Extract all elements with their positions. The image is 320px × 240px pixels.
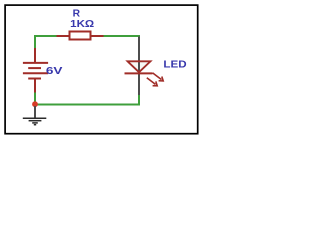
junction node dot xyxy=(32,101,38,107)
wire: green bottom run (LED bottom to junction) xyxy=(35,92,139,105)
resistor R1 left lead xyxy=(57,35,69,37)
border frame xyxy=(5,5,198,134)
LED D1 triangle outline xyxy=(128,61,151,72)
battery B1 bottom lead xyxy=(34,79,36,93)
wire: gray vertical (corner down through LED) xyxy=(138,37,140,96)
battery B1 top lead xyxy=(34,48,36,63)
battery plate short 1 xyxy=(28,67,41,69)
battery plate short 2 xyxy=(28,78,41,80)
battery plate long 2 xyxy=(23,72,48,74)
resistor R1 body xyxy=(70,32,91,40)
wire: green top-right segment (resistor to LED corner) xyxy=(104,35,141,37)
svg-text:1KΩ: 1KΩ xyxy=(70,19,94,30)
LED light arrow 2 xyxy=(147,78,157,86)
svg-text:LED: LED xyxy=(163,60,186,71)
resistor R1 right lead xyxy=(92,35,104,37)
LED light arrow 1 xyxy=(153,73,164,81)
ground symbol xyxy=(23,118,47,124)
svg-text:6V: 6V xyxy=(46,66,63,77)
ground stem wire xyxy=(34,106,36,118)
wire: green top-left corner (battery top to resistor) xyxy=(35,36,58,49)
LED D1 triangle fill xyxy=(128,61,150,72)
LED D1 cathode bar xyxy=(125,72,153,74)
battery plate long 1 xyxy=(23,62,48,64)
